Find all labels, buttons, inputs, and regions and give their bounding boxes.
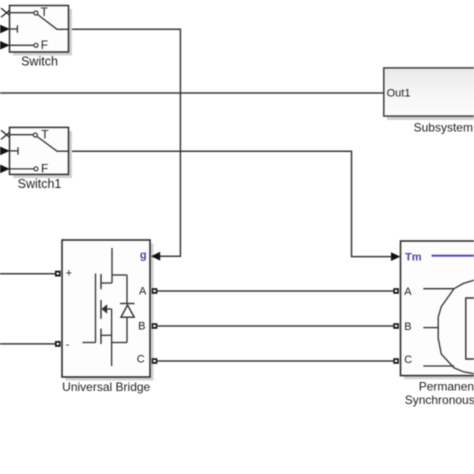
arrowhead into g port xyxy=(151,252,160,261)
wire phase B: Universal Bridge B to PMSM B xyxy=(157,325,394,327)
wire from Switch output to g port (down at x=180) xyxy=(69,29,181,256)
svg-text:Out1: Out1 xyxy=(387,88,411,100)
block PMSM: body xyxy=(401,241,474,376)
svg-text:C: C xyxy=(137,354,145,366)
wire into Universal Bridge + terminal xyxy=(0,273,55,275)
Switch1 F contact circle xyxy=(34,167,38,171)
MOSFET drain-channel connect xyxy=(101,282,112,284)
terminal square: Universal Bridge + xyxy=(55,271,61,277)
block PMSM: shadow xyxy=(404,245,474,380)
PMSM mechanical blue line xyxy=(432,255,474,257)
PMSM inner stub A xyxy=(423,288,454,290)
svg-text:Switch: Switch xyxy=(21,55,58,69)
Switch1 F input wire xyxy=(10,168,35,170)
terminal square: PMSM B xyxy=(393,323,399,329)
block Subsystem: shadow xyxy=(387,71,474,120)
Switch F input wire xyxy=(10,44,35,46)
svg-text:Switch1: Switch1 xyxy=(18,177,62,191)
PMSM stator rectangle xyxy=(466,298,474,359)
MOSFET channel bar top xyxy=(100,274,102,289)
Switch1 unconnected open arrowhead (top port) xyxy=(1,130,10,139)
svg-text:+: + xyxy=(66,267,72,279)
svg-text:Synchronous: Synchronous xyxy=(405,393,474,407)
PMSM machine circle (polygon arc) xyxy=(438,280,474,373)
block Switch: shadow xyxy=(13,9,72,56)
Switch unconnected open arrowhead (top port) xyxy=(1,8,10,17)
terminal square: PMSM A xyxy=(393,288,399,294)
diode bottom vertical xyxy=(126,317,128,342)
Switch input arrowhead (bottom port) xyxy=(0,41,10,51)
svg-text:F: F xyxy=(41,38,48,52)
Switch1 threshold tick xyxy=(17,147,19,155)
svg-text:B: B xyxy=(404,321,411,333)
PMSM inner stub B xyxy=(423,327,438,329)
Switch arm diagonal xyxy=(38,15,69,30)
Switch control input wire xyxy=(10,28,18,30)
wire phase A: Universal Bridge A to PMSM A xyxy=(157,290,394,292)
wire from Switch1 output to Tm port (down at x=352) xyxy=(69,151,392,256)
diode triangle xyxy=(121,305,134,317)
gate bottom horizontal xyxy=(83,342,96,344)
branch to diode top xyxy=(112,274,127,276)
MOSFET channel bar bottom xyxy=(100,329,102,345)
MOSFET body/source vertical xyxy=(111,309,113,366)
MOSFET drain lead xyxy=(111,248,113,283)
PMSM inner stub C xyxy=(423,365,454,367)
svg-text:Tm: Tm xyxy=(405,251,422,263)
wire into Universal Bridge - terminal xyxy=(0,343,55,345)
svg-text:g: g xyxy=(140,250,147,262)
svg-text:A: A xyxy=(139,286,147,298)
Switch1 T contact circle xyxy=(33,133,37,137)
wire phase C: Universal Bridge C to PMSM C xyxy=(157,360,394,362)
MOSFET body arrowhead xyxy=(102,304,108,313)
arrowhead into Tm port xyxy=(391,252,400,261)
terminal square: PMSM C xyxy=(393,358,399,364)
Switch T input wire xyxy=(10,12,34,14)
svg-text:T: T xyxy=(41,5,49,19)
terminal square: Universal Bridge - xyxy=(55,341,61,347)
svg-text:Permanent M: Permanent M xyxy=(419,379,474,393)
svg-text:F: F xyxy=(41,162,48,176)
terminal square: Universal Bridge B xyxy=(152,323,158,329)
Switch threshold tick xyxy=(16,25,18,32)
bottom connect to diode xyxy=(112,342,127,344)
Switch1 control input wire xyxy=(10,150,19,152)
terminal square: Universal Bridge C xyxy=(152,358,158,364)
Switch F contact circle xyxy=(34,43,38,47)
svg-text:B: B xyxy=(138,320,145,332)
MOSFET source connect xyxy=(101,334,112,336)
svg-text:C: C xyxy=(404,354,412,366)
Switch T contact circle xyxy=(34,11,38,15)
Switch input arrowhead (middle port) xyxy=(0,24,10,34)
wire from off-canvas left into Subsystem Out1 xyxy=(0,92,384,94)
svg-text:Universal Bridge: Universal Bridge xyxy=(62,380,150,394)
MOSFET body arrow line xyxy=(103,308,112,310)
svg-text:Subsystem: Subsystem xyxy=(414,121,473,135)
Switch1 arm diagonal xyxy=(37,137,69,152)
block Switch: body xyxy=(10,6,69,53)
diode cathode bar xyxy=(120,303,135,305)
block Universal Bridge: body xyxy=(62,240,150,377)
block Switch1: shadow xyxy=(13,131,72,178)
MOSFET channel bar middle xyxy=(100,300,102,319)
block Universal Bridge: shadow xyxy=(66,244,154,381)
Switch1 input arrowhead (middle port) xyxy=(0,146,10,156)
terminal square: Universal Bridge A xyxy=(152,288,158,294)
svg-text:T: T xyxy=(41,127,49,141)
Switch1 input arrowhead (bottom port) xyxy=(0,164,10,174)
svg-text:-: - xyxy=(66,339,70,351)
MOSFET gate bar xyxy=(95,274,97,343)
Switch1 T input wire xyxy=(10,134,34,136)
block Switch1: body xyxy=(10,127,69,174)
diode top vertical xyxy=(126,275,128,304)
svg-text:A: A xyxy=(404,286,412,298)
